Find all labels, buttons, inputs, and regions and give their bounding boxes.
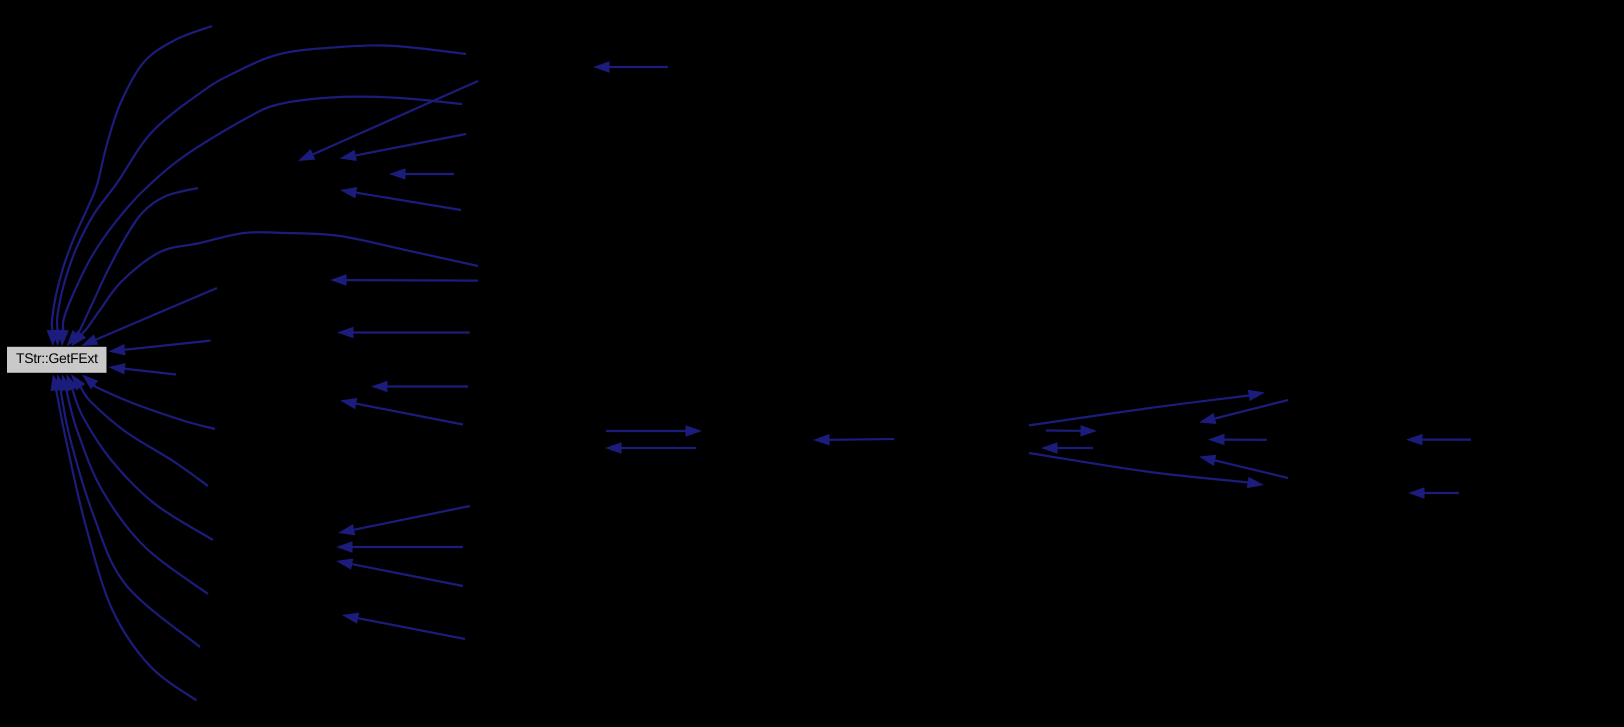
edge 39 xyxy=(1408,487,1459,499)
edge F xyxy=(389,168,454,180)
node TStr::GetFExt (central/highlighted) xyxy=(7,346,108,373)
edge J xyxy=(330,274,478,286)
edge S xyxy=(336,541,463,553)
edge R xyxy=(338,506,470,535)
edge D caller3 -> TStr::GetFExt xyxy=(57,97,462,347)
edge 36 xyxy=(1029,453,1264,488)
edge H caller4 -> TStr::GetFExt xyxy=(67,188,199,347)
edge P xyxy=(340,398,463,425)
edge 38 xyxy=(1406,434,1471,446)
edge W4 caller13 -> TStr::GetFExt xyxy=(55,374,200,647)
edge B caller2 -> TStr::GetFExt xyxy=(52,45,466,346)
edge E xyxy=(340,134,467,161)
edge U xyxy=(342,613,465,640)
edge 27 xyxy=(593,61,668,73)
edge 30 xyxy=(813,434,894,446)
edge 29 xyxy=(605,442,696,454)
edge 32 xyxy=(1199,400,1288,424)
edge M caller7 -> TStr::GetFExt xyxy=(109,341,211,356)
edge O xyxy=(371,381,468,392)
edge L xyxy=(337,327,470,338)
edge W5 caller14 -> TStr::GetFExt xyxy=(51,374,197,701)
edge K caller6 -> TStr::GetFExt xyxy=(81,288,217,346)
edge 35 xyxy=(1208,434,1267,446)
edge 31 xyxy=(1029,390,1265,426)
edge A caller1 -> TStr::GetFExt xyxy=(47,26,212,347)
edge C xyxy=(298,81,478,161)
edge G xyxy=(340,187,461,210)
edge 33 xyxy=(1046,425,1097,437)
edge 37 xyxy=(1199,455,1288,478)
edge W3 caller12 -> TStr::GetFExt xyxy=(61,374,208,594)
edge 28 xyxy=(606,425,702,437)
edge T xyxy=(336,559,463,587)
edge I caller5 -> TStr::GetFExt xyxy=(71,232,478,346)
edge V caller9 -> TStr::GetFExt xyxy=(82,375,215,430)
edge W2 caller11 -> TStr::GetFExt xyxy=(67,374,214,540)
edge N caller8 -> TStr::GetFExt xyxy=(109,363,177,374)
edge W1 caller10 -> TStr::GetFExt xyxy=(71,374,208,486)
edge 34 xyxy=(1041,442,1093,454)
